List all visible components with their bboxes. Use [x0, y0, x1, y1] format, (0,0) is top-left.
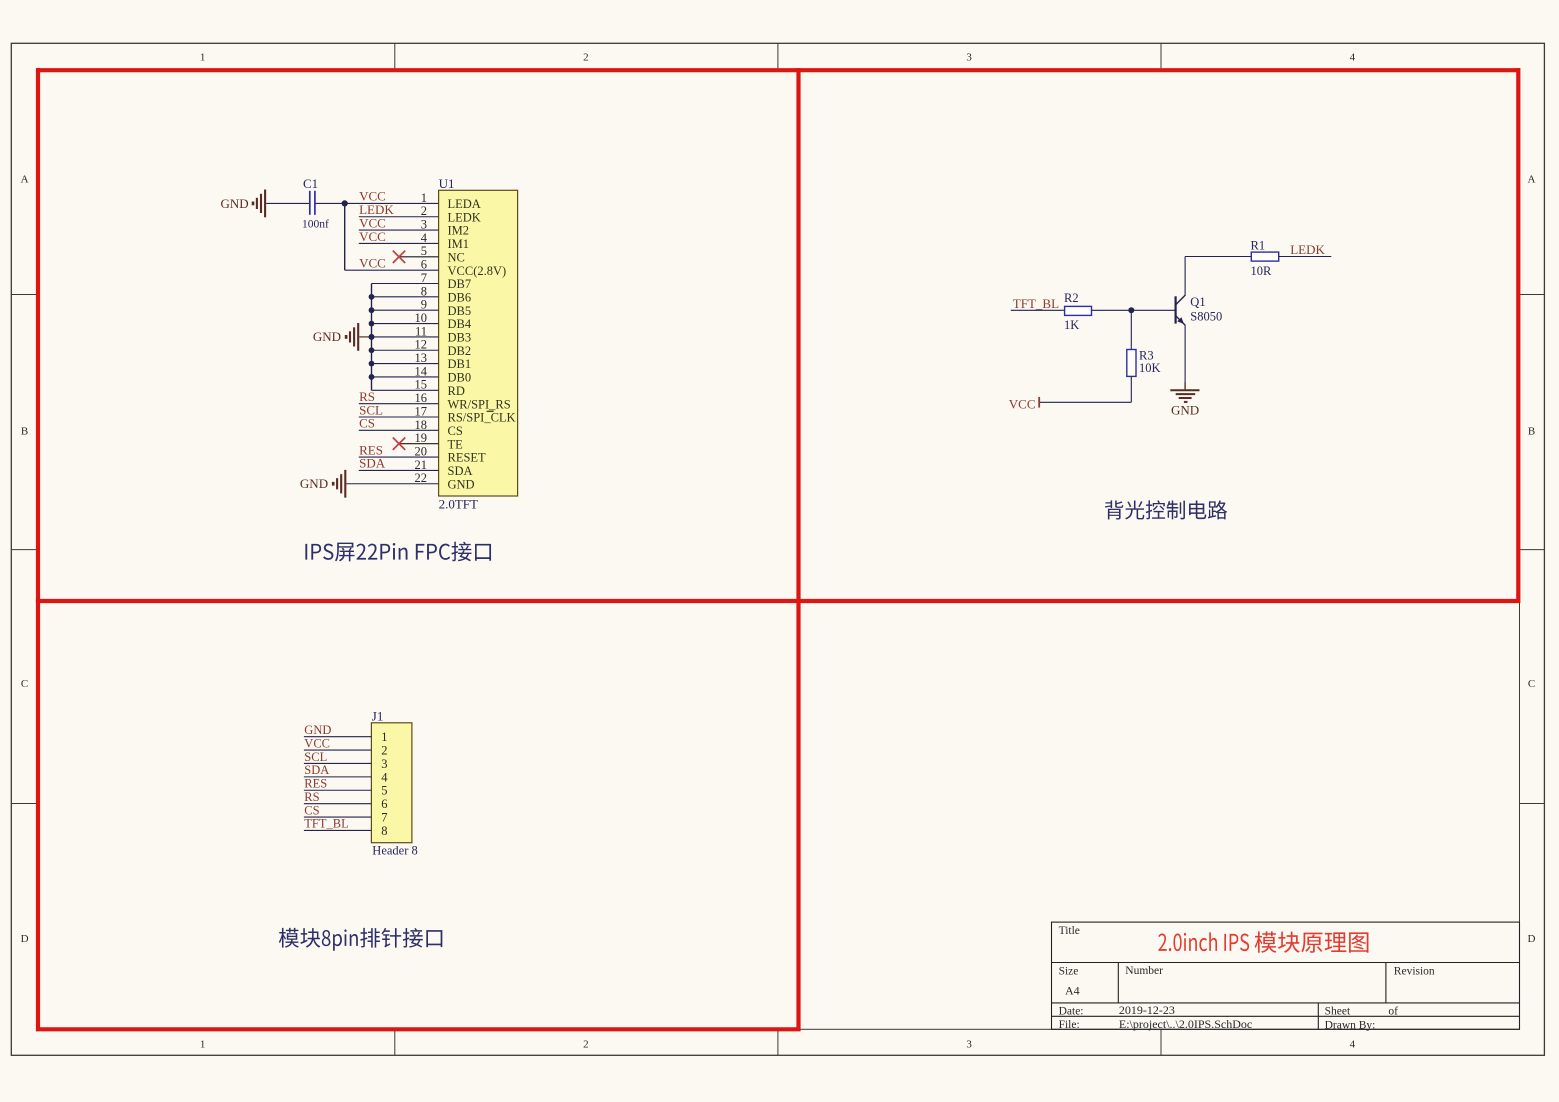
wire GND to C1 [266, 202, 309, 204]
svg-text:GND: GND [300, 476, 328, 491]
svg-text:LEDK: LEDK [448, 210, 481, 224]
svg-text:3: 3 [381, 757, 387, 771]
svg-text:R1: R1 [1251, 238, 1266, 252]
resistor R1 [1251, 238, 1279, 278]
svg-text:WR/SPI_RS: WR/SPI_RS [448, 397, 511, 411]
svg-text:Number: Number [1125, 965, 1163, 977]
svg-text:C: C [21, 678, 28, 690]
svg-text:4: 4 [381, 770, 388, 784]
svg-text:S8050: S8050 [1190, 309, 1222, 323]
svg-text:5: 5 [421, 244, 427, 258]
red section divider box bottom-left (pin header) [36, 599, 801, 1031]
U1 pin 2 wire [359, 216, 439, 218]
svg-text:DB4: DB4 [448, 317, 472, 331]
red section divider box top-right (backlight) [36, 68, 1520, 603]
svg-text:8: 8 [421, 284, 427, 298]
svg-text:D: D [1528, 933, 1536, 945]
svg-text:Sheet: Sheet [1325, 1006, 1351, 1018]
data bus wire DB0-DB7 [371, 284, 373, 391]
svg-text:E:\project\..\2.0IPS.SchDoc: E:\project\..\2.0IPS.SchDoc [1119, 1017, 1252, 1031]
U1 pin names [448, 197, 516, 491]
net label SCL at J1 pin 3 [304, 750, 327, 764]
svg-text:of: of [1388, 1006, 1398, 1018]
U1 pin 22 wire [346, 483, 438, 485]
resistor R3 [1127, 349, 1161, 377]
svg-text:2: 2 [583, 52, 589, 64]
J1 pin 7 wire [304, 816, 372, 818]
svg-text:DB1: DB1 [448, 357, 472, 371]
svg-text:8: 8 [381, 824, 387, 838]
ground GND at Q1 emitter [1170, 383, 1199, 418]
U1 pin 4 wire [359, 242, 439, 244]
svg-text:J1: J1 [372, 708, 384, 723]
svg-text:Header 8: Header 8 [372, 844, 417, 858]
U1 pin 19 line [399, 443, 439, 445]
svg-text:4: 4 [1350, 52, 1356, 64]
svg-text:GND: GND [313, 329, 341, 344]
svg-text:7: 7 [421, 271, 427, 285]
svg-text:GND: GND [221, 196, 249, 211]
svg-text:IM1: IM1 [448, 237, 470, 251]
connector J1 body [371, 723, 412, 843]
no-connect X pin 19 [393, 438, 405, 450]
svg-text:1: 1 [381, 730, 387, 744]
svg-text:100nf: 100nf [302, 219, 329, 231]
svg-text:2: 2 [421, 204, 427, 218]
U1 designator [439, 176, 455, 191]
svg-text:SCL: SCL [304, 750, 327, 764]
svg-text:4: 4 [1350, 1039, 1356, 1051]
svg-text:14: 14 [415, 364, 428, 378]
U1 pin 10 wire [369, 321, 439, 327]
svg-text:17: 17 [415, 404, 428, 418]
svg-text:VCC(2.8V): VCC(2.8V) [448, 264, 507, 278]
svg-text:RESET: RESET [448, 451, 487, 465]
svg-text:VCC: VCC [359, 229, 386, 244]
net label GND at J1 pin 1 [304, 723, 331, 737]
net label VCC pin 3 [359, 215, 386, 230]
net label LEDK pin 2 [359, 202, 394, 217]
U1 pin 7 wire [372, 283, 439, 285]
U1 pin 3 wire [359, 229, 439, 231]
svg-text:9: 9 [421, 298, 427, 312]
title block texts [1059, 925, 1435, 1031]
svg-text:3: 3 [966, 1039, 972, 1051]
U1 comment 2.0TFT [439, 497, 478, 512]
svg-text:DB0: DB0 [448, 371, 472, 385]
U1 pin 8 wire [369, 294, 439, 300]
J1 pin 8 wire [304, 829, 372, 831]
svg-text:19: 19 [415, 431, 428, 445]
U1 pin 21 wire [359, 469, 439, 471]
svg-text:1: 1 [200, 1039, 206, 1051]
net label CS at J1 pin 7 [304, 803, 319, 817]
net label CS pin 18 [359, 416, 375, 431]
net label TFT_BL at J1 pin 8 [304, 817, 348, 831]
net label VCC pin 1 [359, 189, 386, 204]
svg-text:C1: C1 [303, 176, 318, 191]
svg-text:B: B [1528, 426, 1535, 438]
net label RES pin 20 [359, 442, 383, 457]
net label VCC pin 6 [359, 255, 386, 270]
U1 pin 12 wire [369, 347, 439, 353]
overline on CLK of pin 17 name [487, 410, 494, 412]
svg-text:7: 7 [381, 810, 387, 824]
net label TFT_BL [1013, 296, 1059, 311]
svg-text:4: 4 [421, 231, 428, 245]
svg-text:TFT_BL: TFT_BL [304, 817, 348, 831]
net label RS pin 16 [359, 389, 375, 404]
svg-text:DB2: DB2 [448, 344, 472, 358]
svg-text:VCC: VCC [304, 736, 330, 750]
ground GND at pin 22 [300, 470, 345, 498]
net label RES at J1 pin 5 [304, 777, 327, 791]
U1 pin 18 wire [359, 429, 439, 431]
svg-text:C: C [1528, 678, 1535, 690]
no-connect X pin 5 [393, 251, 405, 263]
svg-text:10R: 10R [1251, 264, 1273, 278]
svg-text:1K: 1K [1064, 318, 1079, 332]
U1 pin 17 wire [359, 416, 439, 418]
wire R1 to LEDK [1279, 256, 1332, 258]
svg-text:15: 15 [415, 378, 428, 392]
svg-text:6: 6 [381, 797, 387, 811]
net label LEDK [1290, 242, 1325, 257]
svg-text:11: 11 [415, 324, 427, 338]
wire GND to bus [359, 334, 374, 340]
svg-text:CS: CS [359, 416, 375, 431]
U1 pin numbers 1-22 [415, 191, 428, 485]
svg-text:16: 16 [415, 391, 428, 405]
wire R3 to VCC rail [1039, 376, 1131, 402]
svg-text:A4: A4 [1065, 984, 1080, 998]
svg-text:RS: RS [304, 790, 319, 804]
wire junction down to pin 6 [344, 203, 346, 270]
svg-text:U1: U1 [439, 176, 455, 191]
sheet title 2.0inch IPS schematic [1158, 931, 1368, 952]
svg-text:DB5: DB5 [448, 304, 472, 318]
svg-text:22: 22 [415, 471, 428, 485]
svg-text:5: 5 [381, 784, 387, 798]
svg-text:2: 2 [583, 1039, 589, 1051]
svg-text:DB6: DB6 [448, 290, 472, 304]
U1 pin 16 wire [359, 403, 439, 405]
svg-text:R2: R2 [1064, 291, 1079, 305]
U1 pin 14 wire [369, 374, 439, 380]
svg-text:D: D [21, 933, 29, 945]
wire Q1 emitter down [1184, 325, 1186, 383]
net label SDA pin 21 [359, 456, 386, 471]
connector U1 body [439, 190, 518, 496]
section label IPS 22Pin FPC [305, 542, 491, 562]
svg-text:TFT_BL: TFT_BL [1013, 296, 1059, 311]
capacitor C1 [302, 176, 329, 230]
svg-text:CS: CS [448, 424, 463, 438]
svg-text:12: 12 [415, 338, 428, 352]
J1 pin 6 wire [304, 803, 372, 805]
ground GND at DB3 bus [313, 323, 358, 351]
net label VCC pin 4 [359, 229, 386, 244]
resistor R2 [1064, 291, 1092, 332]
svg-text:VCC: VCC [1009, 396, 1036, 411]
svg-text:SDA: SDA [448, 464, 473, 478]
svg-text:LEDK: LEDK [1290, 242, 1325, 257]
svg-text:SDA: SDA [359, 456, 386, 471]
svg-text:2019-12-23: 2019-12-23 [1119, 1003, 1175, 1017]
J1 designator [372, 708, 384, 723]
svg-text:IM2: IM2 [448, 224, 470, 238]
svg-text:NC: NC [448, 250, 465, 264]
svg-text:Revision: Revision [1394, 965, 1435, 977]
svg-text:RES: RES [304, 777, 327, 791]
J1 pin 3 wire [304, 762, 372, 764]
J1 comment Header 8 [372, 844, 417, 858]
svg-text:6: 6 [421, 258, 427, 272]
node junction at pin1/VCC [342, 200, 348, 206]
svg-text:Title: Title [1059, 925, 1080, 937]
J1 pin 1 wire [304, 736, 372, 738]
power port VCC [1009, 396, 1039, 411]
net label RS at J1 pin 6 [304, 790, 319, 804]
node junction R2/R3 [1128, 307, 1134, 313]
svg-text:3: 3 [966, 52, 972, 64]
svg-text:SDA: SDA [304, 763, 329, 777]
svg-text:A: A [21, 174, 29, 186]
svg-text:RS/SPI_CLK: RS/SPI_CLK [448, 411, 516, 425]
U1 pin 9 wire [369, 307, 439, 313]
net label SCL pin 17 [359, 402, 383, 417]
svg-text:18: 18 [415, 418, 428, 432]
U1 pin 1 wire [315, 202, 438, 204]
svg-text:Size: Size [1059, 965, 1079, 977]
svg-text:GND: GND [304, 723, 331, 737]
section label module 8pin header [279, 928, 442, 951]
svg-text:LEDA: LEDA [448, 197, 481, 211]
wire Q1 collector up [1185, 257, 1251, 296]
svg-text:1: 1 [200, 52, 206, 64]
svg-text:Drawn By:: Drawn By: [1325, 1020, 1376, 1032]
svg-text:10K: 10K [1139, 361, 1161, 375]
U1 pin 11 wire [369, 334, 439, 340]
svg-text:DB3: DB3 [448, 331, 472, 345]
wire TFT_BL to R2 [1011, 309, 1065, 311]
svg-text:GND: GND [1171, 402, 1199, 417]
section label backlight control circuit [1105, 500, 1227, 519]
U1 pin 13 wire [369, 361, 439, 367]
U1 pin 6 wire [345, 269, 439, 271]
title block grid [1052, 922, 1520, 1029]
svg-text:2: 2 [381, 743, 387, 757]
net label VCC at J1 pin 2 [304, 736, 330, 750]
J1 pin 5 wire [304, 789, 372, 791]
J1 pin numbers 1-8 [381, 730, 388, 838]
svg-text:21: 21 [415, 458, 428, 472]
svg-text:GND: GND [448, 477, 475, 491]
svg-text:13: 13 [415, 351, 428, 365]
svg-text:10: 10 [415, 311, 428, 325]
svg-text:2.0TFT: 2.0TFT [439, 497, 478, 512]
svg-text:Date:: Date: [1059, 1006, 1084, 1018]
svg-text:A: A [1528, 174, 1536, 186]
ground GND at C1 [221, 190, 266, 218]
U1 pin 5 line [399, 256, 439, 258]
svg-text:RD: RD [448, 384, 465, 398]
U1 pin 20 wire [359, 456, 439, 458]
J1 pin 4 wire [304, 776, 372, 778]
svg-text:3: 3 [421, 218, 427, 232]
svg-text:B: B [21, 426, 28, 438]
svg-text:DB7: DB7 [448, 277, 472, 291]
svg-text:1: 1 [421, 191, 427, 205]
red section divider box top-left (FPC interface) [36, 68, 799, 603]
net label SDA at J1 pin 4 [304, 763, 329, 777]
wire R2 to Q1 base [1092, 309, 1175, 311]
U1 pin 15 wire [372, 389, 439, 391]
svg-text:TE: TE [448, 437, 464, 451]
svg-text:Q1: Q1 [1190, 295, 1205, 309]
svg-text:File:: File: [1059, 1019, 1080, 1031]
svg-text:VCC: VCC [359, 255, 386, 270]
svg-text:CS: CS [304, 803, 319, 817]
transistor Q1 S8050 [1176, 295, 1223, 325]
svg-text:20: 20 [415, 444, 428, 458]
J1 pin 2 wire [304, 749, 372, 751]
wire junction to R3 [1130, 310, 1132, 349]
